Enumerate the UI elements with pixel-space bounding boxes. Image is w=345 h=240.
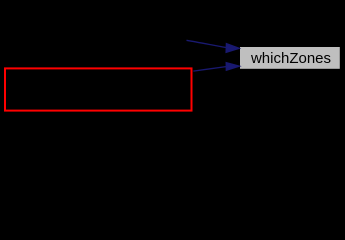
wire: edge from hidden caller to whichZones: [187, 40, 227, 47]
svg-text:whichZones: whichZones: [250, 50, 331, 67]
node: current function (red highlight box): [5, 68, 192, 110]
call graph canvas: [0, 0, 345, 117]
arrowhead of top edge: [226, 44, 239, 53]
arrowhead of bottom edge: [226, 63, 239, 71]
wire: edge from red node to whichZones: [193, 67, 226, 72]
node whichZones (grey box): [240, 47, 340, 69]
